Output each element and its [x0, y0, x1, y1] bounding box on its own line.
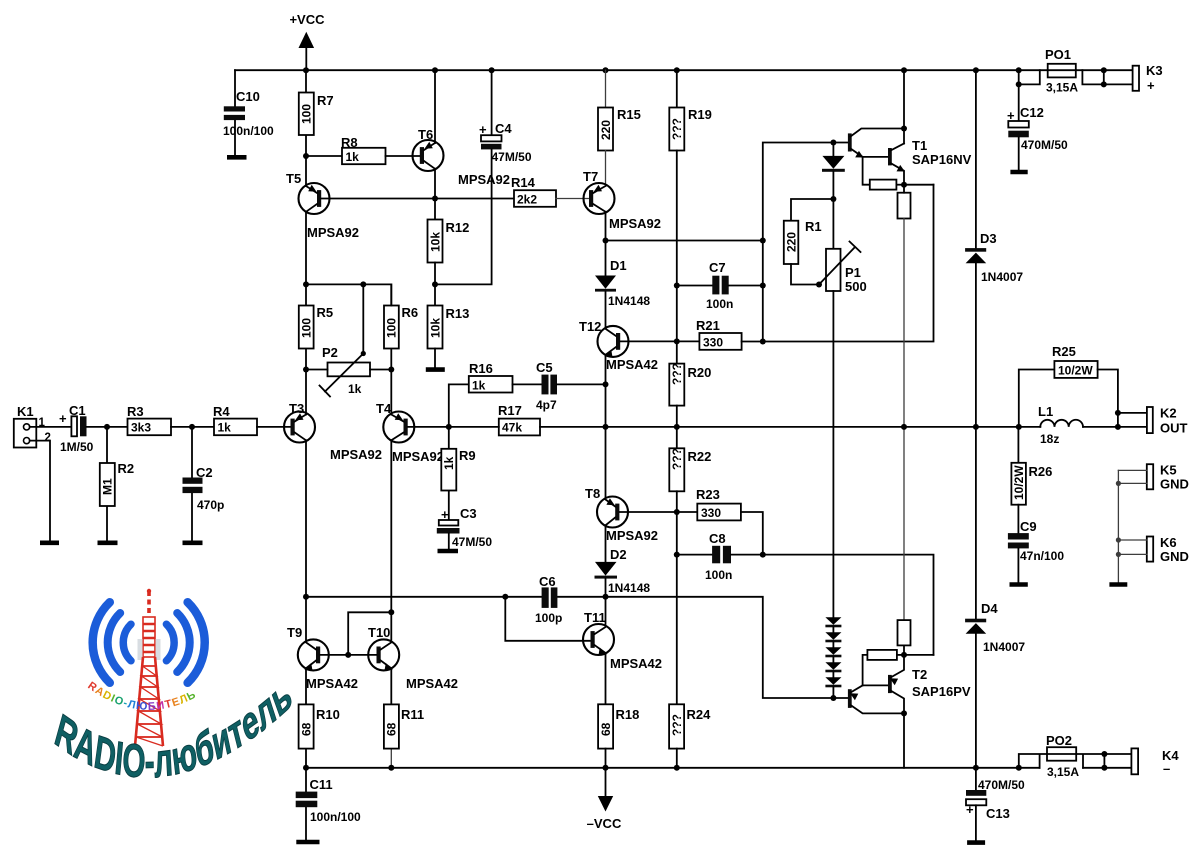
potentiometer P2 1k — [320, 345, 371, 397]
ground (C9) — [1010, 582, 1028, 587]
svg-text:???: ??? — [670, 118, 684, 140]
node junction C8 left — [674, 552, 680, 558]
svg-text:220: 220 — [599, 120, 613, 140]
svg-text:100n: 100n — [706, 297, 733, 311]
transistor T2 SAP16PV (darlington) — [848, 620, 971, 713]
resistor R12 10k — [428, 220, 470, 263]
wire R22 down to R24 — [676, 491, 678, 704]
ground (C13) — [967, 840, 985, 845]
node junction R7/R8/T5 — [303, 153, 309, 159]
svg-text:500: 500 — [845, 279, 867, 294]
node junction T12 base / R21 — [674, 338, 680, 344]
svg-text:C7: C7 — [709, 260, 726, 275]
wire R23 right down to C8 row — [741, 512, 763, 555]
resistor R22 ??? — [669, 448, 711, 491]
logo radio waves left — [93, 602, 131, 683]
wire T8 collector down — [605, 525, 607, 562]
svg-text:+: + — [1147, 78, 1155, 93]
node junction C13/D4 lower — [1016, 765, 1022, 771]
svg-text:MPSA42: MPSA42 — [406, 676, 458, 691]
diode bias (T1 base) — [822, 143, 845, 200]
node junction T2 emitter — [901, 652, 907, 658]
svg-text:R12: R12 — [446, 220, 470, 235]
svg-text:R6: R6 — [402, 305, 419, 320]
svg-text:220: 220 — [784, 232, 798, 252]
resistor R1 220 — [784, 199, 834, 285]
svg-text:470M/50: 470M/50 — [978, 778, 1025, 792]
node junction T1 base / bias diode — [830, 140, 836, 146]
wire K5/K6 ground column — [1117, 470, 1119, 582]
svg-text:1N4007: 1N4007 — [983, 640, 1025, 654]
svg-text:R18: R18 — [616, 707, 640, 722]
wire R14 to T7 base — [556, 198, 589, 200]
svg-text:T11: T11 — [584, 610, 606, 625]
resistor R5 100 — [299, 284, 333, 369]
node junction C6 branch — [502, 594, 508, 600]
svg-text:+: + — [59, 411, 67, 426]
svg-text:K1: K1 — [17, 404, 34, 419]
wire T1 emitter resistor column — [903, 219, 905, 621]
capacitor C6 100p — [535, 574, 562, 625]
svg-text:C8: C8 — [709, 531, 726, 546]
node junction PO2 right lower — [1101, 765, 1107, 771]
diode string D5 — [825, 617, 841, 627]
wire R19 down to R20 — [676, 151, 678, 364]
svg-text:10/2W: 10/2W — [1012, 465, 1026, 500]
wire D4 to bottom rail — [975, 634, 977, 768]
resistor R13 10k — [428, 306, 470, 349]
svg-text:D3: D3 — [980, 231, 997, 246]
node junction PO1 right lower — [1101, 81, 1107, 87]
wire C8 right / drive rail bottom — [731, 555, 934, 655]
svg-text:10k: 10k — [428, 232, 442, 252]
svg-text:K6: K6 — [1160, 535, 1177, 550]
svg-text:100: 100 — [300, 104, 314, 124]
node junction PO1 right upper — [1101, 67, 1107, 73]
resistor R8 1k — [341, 135, 386, 164]
svg-text:D1: D1 — [610, 258, 627, 273]
wire T8 emitter up — [605, 427, 607, 498]
node junction P2 left — [303, 367, 309, 373]
svg-text:R26: R26 — [1029, 464, 1053, 479]
svg-text:47M/50: 47M/50 — [452, 535, 492, 549]
resistor R10 68 — [299, 668, 340, 768]
resistor R21 330 — [696, 318, 742, 350]
wire T8 base to bias column — [620, 511, 677, 513]
wire C3 to ground — [448, 534, 450, 549]
ground (C11) — [296, 840, 319, 845]
node junction R12/R13/C4 — [432, 281, 438, 287]
svg-text:T1: T1 — [912, 138, 927, 153]
node junction C5 tap — [603, 381, 609, 387]
transistor T5 MPSA92 — [286, 171, 359, 240]
svg-text:C3: C3 — [460, 506, 477, 521]
wire VAS node to T1 base column — [606, 143, 848, 342]
node junction P2 right — [388, 367, 394, 373]
wire R8 to T6 base — [386, 155, 420, 157]
svg-text:R25: R25 — [1052, 344, 1076, 359]
svg-text:100: 100 — [300, 318, 314, 338]
svg-text:R19: R19 — [688, 107, 712, 122]
svg-text:R10: R10 — [316, 707, 340, 722]
transistor T6 MPSA92 — [413, 127, 511, 187]
connector K2 OUT — [1147, 406, 1188, 436]
transistor T8 MPSA92 — [585, 486, 658, 543]
svg-text:–: – — [1163, 761, 1170, 776]
wire K6 pins — [1118, 540, 1146, 554]
resistor R3 3k3 — [127, 404, 171, 435]
logo big arc text RADIO-lyubitel — [50, 667, 297, 788]
svg-text:+: + — [966, 802, 974, 817]
svg-text:MPSA92: MPSA92 — [330, 447, 382, 462]
resistor R18 68 — [598, 704, 639, 768]
svg-text:GND: GND — [1160, 549, 1189, 564]
capacitor C4 47M/50 — [479, 70, 532, 164]
node junction T8 base / R23 — [674, 509, 680, 515]
svg-text:R23: R23 — [696, 487, 720, 502]
node junction emitter column / output — [901, 424, 907, 430]
wire T2 emitter to drive rail column — [904, 654, 934, 656]
wire T12 emitter down to output line — [605, 355, 607, 427]
node junction PO2 right upper — [1101, 751, 1107, 757]
svg-text:SAP16PV: SAP16PV — [912, 684, 971, 699]
connector K1 — [14, 404, 51, 448]
wire K5 pins — [1118, 470, 1146, 483]
ground (C2) — [183, 540, 203, 545]
ground (R2) — [98, 540, 118, 545]
node junction bias/output — [674, 424, 680, 430]
wire R12 to R13 — [434, 263, 436, 306]
wire C7 right to VAS column — [729, 285, 763, 287]
svg-text:+VCC: +VCC — [289, 12, 325, 27]
svg-text:R11: R11 — [401, 707, 424, 722]
diode D4 1N4007 — [965, 427, 1025, 654]
svg-text:1N4007: 1N4007 — [981, 270, 1023, 284]
svg-text:???: ??? — [670, 448, 684, 470]
resistor R17 47k — [498, 403, 540, 435]
resistor R6 100 — [384, 284, 418, 369]
svg-text:MPSA92: MPSA92 — [392, 449, 444, 464]
svg-text:GND: GND — [1160, 477, 1189, 492]
node junction C7/VAS column — [760, 283, 766, 289]
wire junction to R8 — [306, 155, 342, 157]
svg-text:1k: 1k — [218, 421, 232, 435]
node junction R11 rail — [388, 765, 394, 771]
node junction D3/output — [973, 424, 979, 430]
svg-text:1k: 1k — [348, 382, 362, 396]
svg-text:R15: R15 — [617, 107, 641, 122]
node junction T2 collector — [901, 710, 907, 716]
node junction T10 collector link — [388, 609, 394, 615]
node junction T1 emitter — [901, 182, 907, 188]
node junction C2 tap — [189, 424, 195, 430]
node junction C8 right — [760, 552, 766, 558]
capacitor C5 4p7 — [536, 360, 557, 412]
resistor R14 2k2 — [511, 175, 556, 207]
svg-text:R3: R3 — [127, 404, 144, 419]
svg-text:C13: C13 — [986, 806, 1010, 821]
svg-text:MPSA92: MPSA92 — [458, 172, 510, 187]
transistor T9 MPSA42 — [287, 625, 358, 691]
transistor T3 MPSA92 — [284, 401, 382, 462]
svg-text:T10: T10 — [368, 625, 390, 640]
ground (C12) — [1010, 170, 1027, 175]
wire T11 emitter down to R18 — [605, 653, 607, 704]
svg-text:R17: R17 — [498, 403, 522, 418]
wire D2 to T11 collector — [605, 579, 607, 624]
svg-text:P2: P2 — [322, 345, 338, 360]
wire K1 pin2 to ground — [30, 441, 50, 542]
wire T12 base to bias column — [620, 340, 699, 342]
node junction R2 tap — [104, 424, 110, 430]
svg-text:T7: T7 — [583, 169, 598, 184]
diode D3 1N4007 — [965, 70, 1023, 284]
wire bottom rail (-VCC rail) — [306, 767, 1131, 769]
connector K4 - — [1131, 748, 1179, 776]
transistor T1 SAP16NV (darlington) — [848, 129, 972, 219]
wire R17 to output column — [540, 426, 606, 428]
svg-text:470p: 470p — [197, 498, 224, 512]
svg-text:R20: R20 — [688, 365, 712, 380]
svg-text:T9: T9 — [287, 625, 302, 640]
node junction T3 collector / C6 row — [303, 594, 309, 600]
wire P2 ends to R5 R6 legs — [306, 369, 391, 371]
transistor T4 MPSA92 — [376, 401, 444, 464]
wire D1 to T12 collector — [605, 292, 607, 328]
resistor R16 1k — [469, 361, 513, 393]
node junction T1 collector rail — [901, 67, 907, 73]
wire R21 right / drive rail top — [742, 185, 934, 342]
wire +VCC top rail — [235, 69, 1133, 71]
diode D2 1N4148 — [595, 547, 651, 595]
wire T2 base link from C6 row — [606, 597, 848, 698]
ground (C3) — [438, 549, 459, 554]
resistor R20 ??? — [669, 363, 711, 406]
svg-text:10k: 10k — [428, 318, 442, 338]
svg-text:T2: T2 — [912, 667, 927, 682]
wire T7 collector down — [605, 212, 607, 241]
node junction R19 rail — [674, 67, 680, 73]
wire C6 row — [306, 596, 606, 598]
svg-text:R13: R13 — [446, 306, 470, 321]
wire mirror diode link — [348, 612, 391, 655]
wire T2 collector to bottom rail — [903, 713, 905, 767]
inductor L1 18z — [1038, 404, 1083, 446]
svg-text:MPSA92: MPSA92 — [606, 528, 658, 543]
node junction T2 base — [830, 695, 836, 701]
node junction K2 upper — [1115, 410, 1121, 416]
wire T5 emitter up / collector down — [305, 156, 307, 284]
svg-text:MPSA42: MPSA42 — [610, 656, 662, 671]
resistor R9 1k — [441, 427, 475, 520]
diode string D7 — [825, 642, 841, 657]
svg-text:OUT: OUT — [1160, 421, 1188, 436]
resistor R19 ??? — [669, 70, 712, 150]
svg-text:4p7: 4p7 — [536, 398, 557, 412]
wire T3 emitter up / collector down — [305, 370, 307, 640]
svg-text:470M/50: 470M/50 — [1021, 138, 1068, 152]
svg-text:68: 68 — [299, 722, 313, 736]
svg-text:C11: C11 — [310, 777, 333, 792]
resistor R4 1k — [213, 404, 257, 435]
svg-text:T5: T5 — [286, 171, 301, 186]
svg-text:L1: L1 — [1038, 404, 1053, 419]
node junction C12 tap lower — [1016, 81, 1022, 87]
svg-text:D2: D2 — [610, 547, 627, 562]
node junction K2 lower — [1115, 424, 1121, 430]
capacitor C8 100n — [677, 531, 733, 582]
capacitor C2 470p — [183, 427, 225, 541]
transistor T10 MPSA42 — [368, 625, 458, 691]
svg-text:100n/100: 100n/100 — [223, 124, 274, 138]
node junction K5 pin2 — [1116, 481, 1121, 486]
svg-text:10/2W: 10/2W — [1058, 364, 1093, 378]
capacitor C11 100n/100 — [296, 768, 361, 840]
svg-text:2k2: 2k2 — [517, 193, 537, 207]
svg-text:100n/100: 100n/100 — [310, 810, 361, 824]
node junction D3 rail — [973, 67, 979, 73]
svg-text:T8: T8 — [585, 486, 600, 501]
svg-text:K5: K5 — [1160, 463, 1177, 478]
svg-text:R21: R21 — [696, 318, 720, 333]
svg-text:1k: 1k — [346, 150, 360, 164]
svg-text:???: ??? — [670, 363, 684, 385]
capacitor C13 470M/50 — [966, 768, 1025, 841]
wire K2 links — [1118, 413, 1147, 427]
svg-text:C6: C6 — [539, 574, 556, 589]
svg-text:R2: R2 — [118, 461, 135, 476]
node junction at x762 VAS — [760, 238, 766, 244]
svg-text:M1: M1 — [101, 478, 115, 495]
wire T1 collector from rail — [903, 70, 905, 143]
svg-text:3k3: 3k3 — [131, 421, 151, 435]
wire R13 to ground — [434, 349, 436, 368]
svg-text:R5: R5 — [317, 305, 334, 320]
node junction R5 top — [303, 281, 309, 287]
wire T6 emitter up / collector down — [434, 70, 436, 219]
resistor R24 ??? — [669, 704, 711, 768]
diode string D8 — [825, 657, 841, 672]
svg-text:1M/50: 1M/50 — [60, 440, 94, 454]
wire R20 to R22 — [676, 406, 678, 449]
svg-text:PO2: PO2 — [1046, 733, 1072, 748]
svg-text:–VCC: –VCC — [587, 816, 622, 831]
node junction L1/R25/R26 tap — [1016, 424, 1022, 430]
svg-text:R24: R24 — [687, 707, 712, 722]
node -VCC symbol — [587, 768, 622, 831]
node junction P1 wiper — [816, 282, 822, 288]
wire T9/T10 base link — [320, 654, 376, 656]
resistor R11 68 — [384, 668, 424, 768]
svg-text:PO1: PO1 — [1045, 47, 1071, 62]
svg-text:1N4148: 1N4148 — [608, 581, 650, 595]
wire D3 to output — [975, 263, 977, 427]
ground (K5/K6) — [1109, 582, 1127, 587]
svg-text:1k: 1k — [472, 379, 486, 393]
node junction T6 rail — [432, 67, 438, 73]
ground (K1) — [40, 540, 59, 545]
wire feedback node up to R16 — [449, 384, 469, 427]
svg-text:47n/100: 47n/100 — [1020, 549, 1064, 563]
svg-text:MPSA92: MPSA92 — [609, 216, 661, 231]
node junction T7 collector / D1 — [603, 238, 609, 244]
svg-text:C10: C10 — [236, 89, 260, 104]
capacitor C9 47n/100 — [1008, 519, 1064, 582]
node junction R21 right — [760, 339, 766, 345]
resistor R2 M1 — [100, 427, 134, 541]
svg-text:330: 330 — [701, 506, 721, 520]
wire C6 branch to T11 base — [505, 597, 590, 641]
svg-text:100n: 100n — [705, 568, 732, 582]
svg-text:R22: R22 — [688, 449, 712, 464]
node junction R24 rail — [674, 765, 680, 771]
svg-text:R1: R1 — [805, 219, 822, 234]
node junction mirror base — [345, 652, 351, 658]
svg-text:47M/50: 47M/50 — [492, 150, 532, 164]
wire main output line — [606, 426, 1118, 428]
node junction R18 rail — [603, 765, 609, 771]
svg-text:1N4148: 1N4148 — [608, 294, 650, 308]
wire P2 wiper — [362, 284, 364, 353]
svg-text:P1: P1 — [845, 265, 861, 280]
svg-text:R16: R16 — [469, 361, 493, 376]
logo radio waves right — [166, 602, 204, 683]
capacitor C10 100n/100 — [223, 70, 274, 155]
transistor T11 MPSA42 — [583, 610, 662, 671]
svg-text:K3: K3 — [1146, 63, 1163, 78]
svg-text:68: 68 — [385, 722, 399, 736]
wire K1 pin1 to C1 — [30, 426, 72, 428]
wire C1 to R3 — [87, 426, 128, 428]
resistor R26 10/2W — [1011, 427, 1052, 533]
node junction output/T8 — [603, 424, 609, 430]
node junction R12 top — [432, 196, 438, 202]
svg-text:R4: R4 — [213, 404, 230, 419]
wire R16 to C5 — [513, 383, 542, 385]
node junction R7 rail — [303, 67, 309, 73]
resistor R15 220 — [598, 70, 641, 150]
svg-text:SAP16NV: SAP16NV — [912, 152, 972, 167]
fuse PO1 3,15A — [1019, 47, 1133, 95]
svg-text:3,15A: 3,15A — [1047, 765, 1079, 779]
svg-text:D4: D4 — [981, 601, 998, 616]
wire T5 collector row — [306, 284, 391, 305]
resistor R23 330 — [677, 487, 741, 520]
ground (C10) — [227, 155, 247, 160]
svg-text:MPSA42: MPSA42 — [606, 357, 658, 372]
svg-text:100: 100 — [385, 318, 399, 338]
node junction R1 top / P1 top — [830, 196, 836, 202]
resistor R25 10/2W — [1019, 344, 1118, 427]
node junction T1 Q1 collector — [901, 126, 907, 132]
potentiometer P1 500 — [819, 199, 867, 294]
svg-text:68: 68 — [599, 722, 613, 736]
wire T5 base row to R14 — [321, 198, 514, 200]
wire R4 to T3 base — [257, 426, 291, 428]
node junction D4 rail / C13 — [973, 765, 979, 771]
wire T4 base to feedback node — [408, 426, 449, 428]
svg-text:18z: 18z — [1040, 432, 1059, 446]
capacitor C12 470M/50 — [1007, 84, 1068, 169]
node junction C12 rail — [1016, 67, 1022, 73]
svg-text:K2: K2 — [1160, 406, 1177, 421]
node junction C4 rail — [489, 67, 495, 73]
connector K6 GND — [1147, 535, 1189, 564]
wire R15 to T7 emitter — [605, 151, 607, 187]
node junction P2 wiper tap — [360, 281, 366, 287]
connector K3 + — [1133, 63, 1163, 93]
fuse PO2 3,15A — [1019, 733, 1132, 779]
